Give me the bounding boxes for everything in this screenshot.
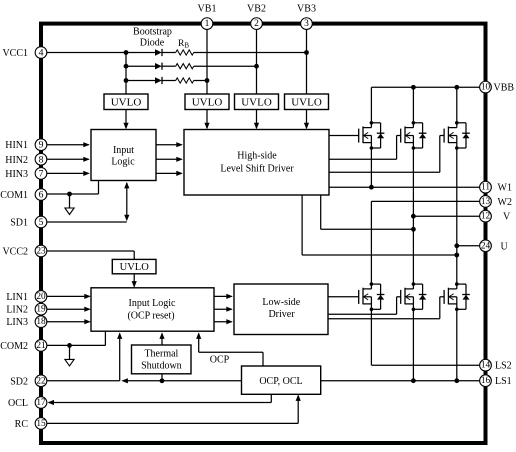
svg-text:LIN1: LIN1: [6, 292, 28, 303]
svg-text:1: 1: [205, 19, 210, 29]
svg-text:W2: W2: [498, 197, 512, 208]
svg-text:7: 7: [39, 168, 44, 179]
svg-text:High-side: High-side: [237, 150, 277, 161]
svg-text:10: 10: [481, 83, 491, 93]
svg-text:Diode: Diode: [140, 37, 165, 48]
svg-text:3: 3: [304, 19, 309, 29]
svg-text:COM2: COM2: [0, 341, 28, 352]
svg-text:VB2: VB2: [247, 4, 266, 15]
svg-text:Input: Input: [113, 145, 134, 156]
svg-text:LS2: LS2: [495, 361, 512, 372]
svg-text:11: 11: [481, 183, 490, 193]
svg-text:17: 17: [36, 398, 46, 408]
svg-text:Driver: Driver: [268, 309, 295, 320]
svg-text:UVLO: UVLO: [241, 96, 272, 108]
svg-text:SD2: SD2: [10, 376, 28, 387]
svg-text:LIN3: LIN3: [6, 317, 28, 328]
svg-text:HIN2: HIN2: [5, 155, 28, 166]
svg-text:Low-side: Low-side: [262, 297, 300, 308]
svg-text:W1: W1: [498, 183, 512, 194]
svg-text:VCC2: VCC2: [2, 247, 28, 258]
svg-text:HIN1: HIN1: [5, 140, 28, 151]
svg-text:16: 16: [481, 376, 491, 386]
svg-text:UVLO: UVLO: [192, 96, 223, 108]
svg-text:23: 23: [36, 247, 46, 257]
svg-text:Thermal: Thermal: [144, 349, 178, 360]
svg-text:OCL: OCL: [8, 398, 28, 409]
svg-text:19: 19: [36, 305, 46, 315]
svg-text:24: 24: [481, 241, 491, 251]
svg-text:VB1: VB1: [198, 4, 217, 15]
svg-text:VB3: VB3: [297, 4, 316, 15]
svg-text:(OCP reset): (OCP reset): [127, 311, 174, 322]
svg-text:Shutdown: Shutdown: [141, 360, 182, 371]
svg-text:U: U: [501, 241, 509, 252]
svg-text:4: 4: [39, 48, 44, 59]
svg-text:9: 9: [39, 140, 44, 151]
svg-text:6: 6: [39, 190, 44, 201]
svg-text:LS1: LS1: [495, 376, 512, 387]
svg-text:VCC1: VCC1: [2, 48, 28, 59]
svg-text:13: 13: [481, 197, 491, 207]
svg-text:2: 2: [254, 19, 259, 29]
svg-text:Input Logic: Input Logic: [129, 298, 176, 309]
svg-text:VBB: VBB: [494, 83, 515, 94]
svg-text:COM1: COM1: [0, 190, 28, 201]
svg-text:12: 12: [481, 212, 491, 222]
svg-text:RC: RC: [15, 419, 29, 430]
svg-text:SD1: SD1: [10, 218, 28, 229]
svg-text:UVLO: UVLO: [291, 96, 322, 108]
svg-text:V: V: [503, 212, 511, 223]
svg-text:5: 5: [39, 217, 44, 228]
svg-text:Logic: Logic: [111, 157, 135, 168]
svg-text:22: 22: [36, 376, 46, 386]
svg-text:21: 21: [36, 341, 46, 351]
svg-text:Level Shift Driver: Level Shift Driver: [220, 164, 294, 175]
svg-text:Bootstrap: Bootstrap: [133, 26, 172, 37]
svg-text:UVLO: UVLO: [111, 96, 142, 108]
svg-text:UVLO: UVLO: [120, 262, 150, 273]
svg-text:14: 14: [481, 361, 491, 371]
svg-text:20: 20: [36, 292, 46, 302]
svg-text:18: 18: [36, 317, 46, 327]
svg-text:OCP, OCL: OCP, OCL: [259, 376, 302, 387]
svg-text:15: 15: [36, 419, 46, 429]
svg-text:OCP: OCP: [210, 355, 230, 366]
svg-text:8: 8: [39, 154, 44, 165]
svg-text:LIN2: LIN2: [6, 305, 28, 316]
svg-text:HIN3: HIN3: [5, 169, 28, 180]
